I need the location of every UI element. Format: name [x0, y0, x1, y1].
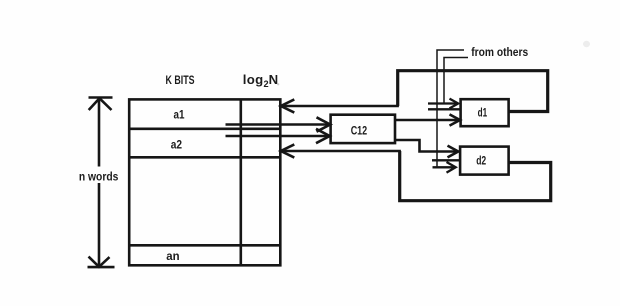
- svg-text:C12: C12: [351, 124, 368, 137]
- svg-text:d2: d2: [476, 154, 486, 167]
- svg-text:d1: d1: [478, 106, 488, 119]
- svg-text:from others: from others: [471, 45, 528, 59]
- svg-text:a1: a1: [174, 109, 185, 122]
- svg-text:an: an: [166, 250, 179, 263]
- svg-text:K BITS: K BITS: [166, 73, 195, 87]
- svg-text:log2N: log2N: [243, 72, 279, 89]
- svg-text:n words: n words: [79, 170, 119, 184]
- svg-text:a2: a2: [171, 138, 183, 151]
